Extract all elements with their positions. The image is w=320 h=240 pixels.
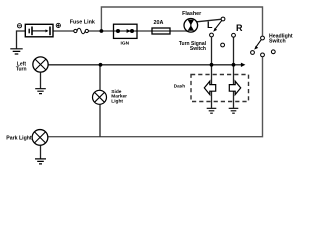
svg-text:Switch: Switch: [190, 46, 206, 52]
svg-text:Turn: Turn: [16, 66, 27, 72]
svg-text:Switch: Switch: [269, 39, 286, 45]
svg-text:L: L: [207, 20, 213, 30]
svg-text:R: R: [236, 23, 243, 33]
svg-text:Fuse Link: Fuse Link: [70, 19, 95, 25]
svg-text:Park Light: Park Light: [6, 135, 32, 141]
svg-text:20A: 20A: [154, 20, 164, 26]
svg-text:Light: Light: [111, 99, 123, 105]
svg-text:IGN: IGN: [121, 40, 130, 46]
svg-text:Dash: Dash: [174, 84, 185, 89]
svg-text:Flasher: Flasher: [182, 11, 202, 17]
